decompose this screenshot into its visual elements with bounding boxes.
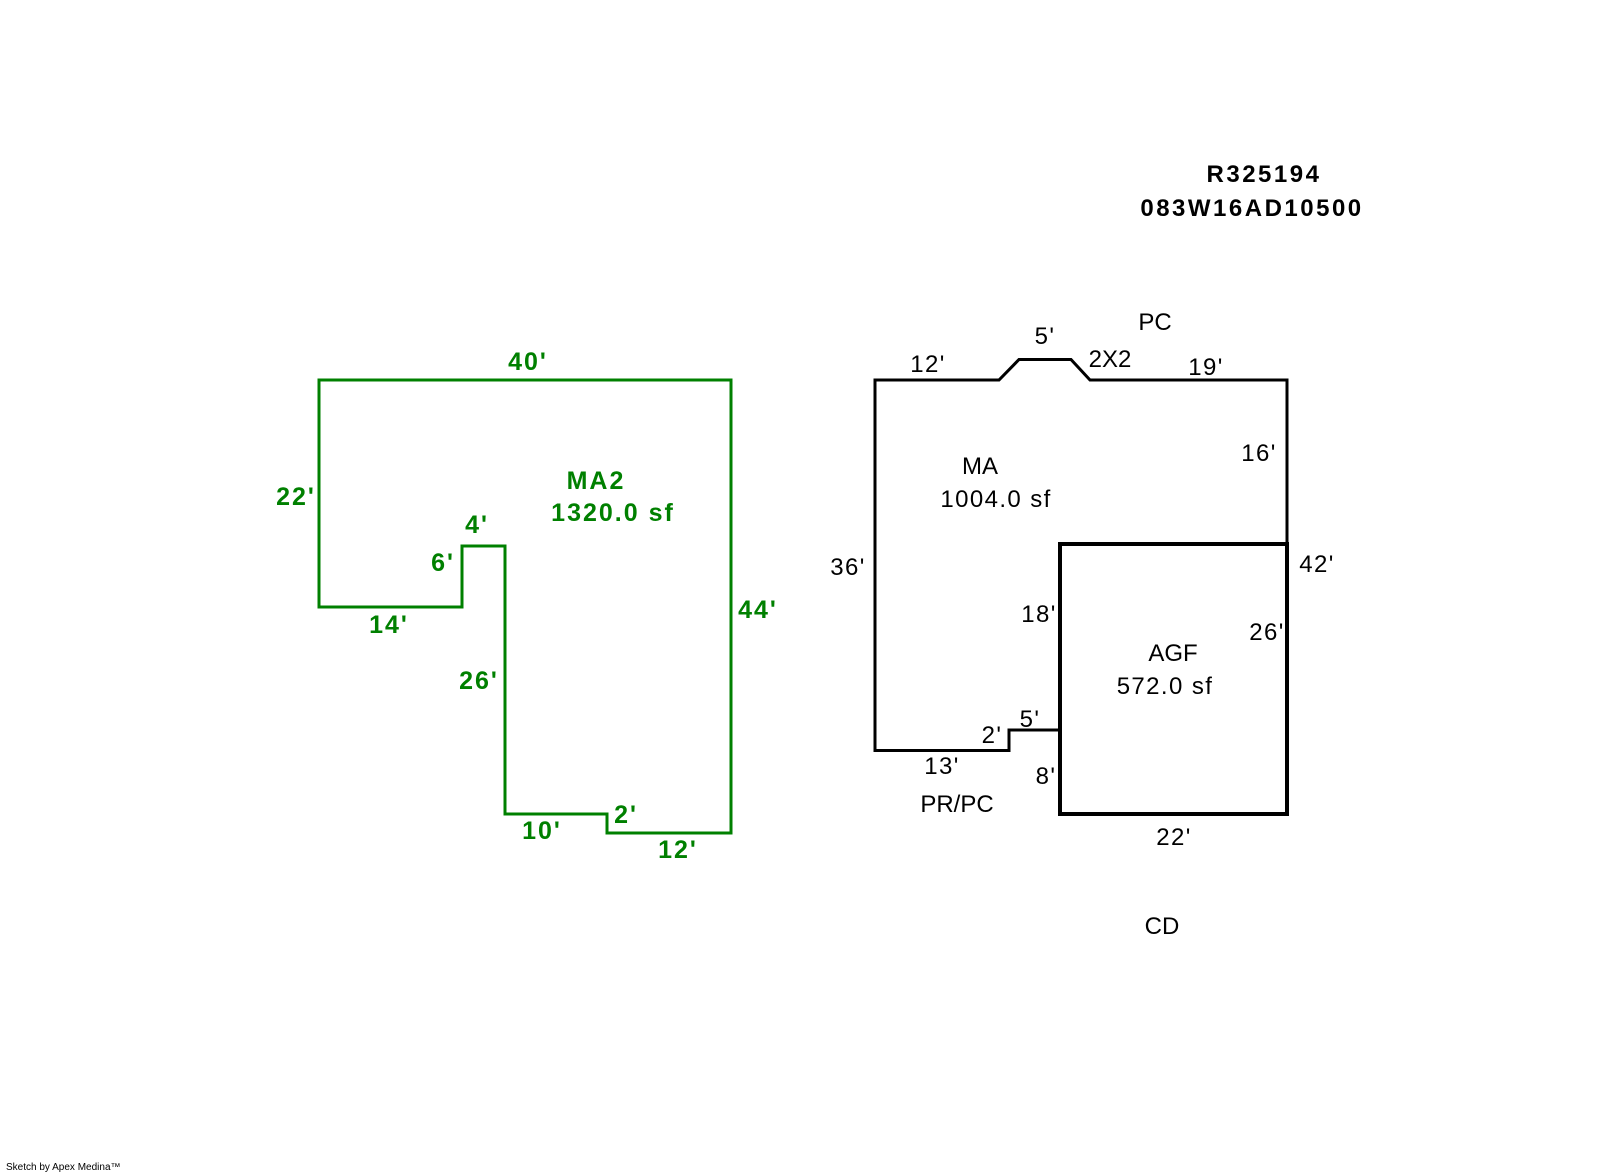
svg-text:8': 8' — [1036, 763, 1057, 790]
svg-text:6': 6' — [431, 549, 455, 577]
svg-text:42': 42' — [1299, 551, 1334, 578]
svg-text:40': 40' — [508, 348, 548, 376]
svg-text:44': 44' — [738, 596, 778, 624]
svg-text:083W16AD10500: 083W16AD10500 — [1140, 195, 1363, 222]
svg-text:572.0 sf: 572.0 sf — [1117, 673, 1214, 700]
svg-text:1004.0 sf: 1004.0 sf — [940, 486, 1051, 513]
svg-text:5': 5' — [1035, 323, 1056, 350]
svg-text:36': 36' — [830, 554, 865, 581]
svg-text:R325194: R325194 — [1207, 161, 1322, 188]
area MA outline (black polygon) — [875, 360, 1287, 751]
svg-text:19': 19' — [1188, 354, 1223, 381]
svg-text:2X2: 2X2 — [1089, 346, 1132, 373]
svg-text:2': 2' — [614, 801, 638, 829]
svg-text:Sketch by Apex Medina™: Sketch by Apex Medina™ — [6, 1162, 121, 1173]
svg-text:14': 14' — [369, 611, 409, 639]
svg-text:MA: MA — [962, 453, 998, 480]
svg-text:PC: PC — [1138, 309, 1171, 336]
area MA2 outline (green polygon) — [319, 380, 731, 833]
svg-text:26': 26' — [459, 667, 499, 695]
svg-text:PR/PC: PR/PC — [920, 791, 993, 818]
area AGF outline (black rect) — [1060, 544, 1287, 814]
svg-text:2': 2' — [982, 722, 1003, 749]
svg-text:10': 10' — [522, 817, 562, 845]
svg-text:CD: CD — [1145, 913, 1180, 940]
svg-text:5': 5' — [1020, 706, 1041, 733]
svg-text:22': 22' — [1156, 824, 1191, 851]
svg-text:AGF: AGF — [1148, 640, 1197, 667]
svg-text:18': 18' — [1021, 601, 1056, 628]
svg-text:MA2: MA2 — [567, 467, 626, 495]
svg-text:22': 22' — [276, 483, 316, 511]
svg-text:16': 16' — [1241, 440, 1276, 467]
svg-text:26': 26' — [1249, 619, 1284, 646]
svg-text:1320.0 sf: 1320.0 sf — [551, 499, 675, 527]
svg-text:12': 12' — [910, 351, 945, 378]
svg-text:4': 4' — [465, 511, 489, 539]
svg-text:12': 12' — [658, 836, 698, 864]
svg-text:13': 13' — [924, 753, 959, 780]
